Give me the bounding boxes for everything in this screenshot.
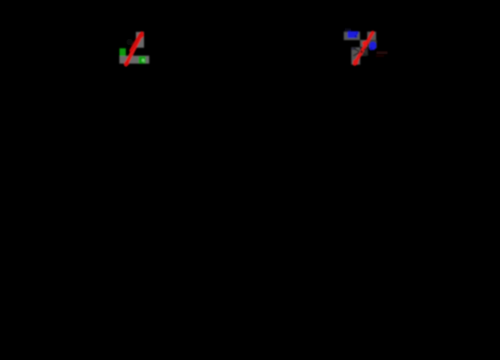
atom label NH upper-right part [356,31,358,34]
left fragment: label mask band behind Cl-Cl (bottom) [119,56,149,64]
atom label Cl1 (green) [120,48,126,56]
right fragment: label mask box behind O (top right) [367,32,376,41]
red bottom tip bulge (left fragment) [124,61,129,65]
bond C=O second line (red, parallel) [131,34,140,50]
faint bond X arm lower-right [364,54,368,56]
atom label O (red blob at bond end) [353,59,358,65]
Cl2 glyph highlight dots [142,59,145,62]
right fragment: label mask column bottom left [351,47,360,64]
right fragment: dark patch right of red bond [361,48,368,56]
faint dark red streak lower [376,55,384,57]
atom label NH lower-right part [355,35,357,38]
atom label Cl2 (green) [139,56,146,63]
faint smudge above NH label [345,28,351,31]
bond C=O (red, right fragment) [355,33,373,65]
right fragment: label mask box middle [360,40,368,47]
faint bond X arm upper-right [364,48,367,50]
dark nick on red bond at crossing [360,50,363,53]
faint residue near left fragment [126,39,133,46]
left fragment: label mask box behind O (top) [136,32,144,48]
red bright blob mid bond [363,41,368,46]
faint navy smudge at column top [352,48,357,50]
blue dot lower-left tail [369,47,372,50]
faint bond X arm lower-left [353,52,359,56]
right fragment: label mask box behind NH [344,32,360,40]
atom label NH (blue) [348,31,358,38]
faint dark red streak right [377,51,388,54]
bond C=O (red, left fragment) [126,33,142,64]
atom label N (blue dot) [369,42,376,50]
right fragment: label mask box behind N [368,40,376,48]
atom label O top bulge (red, left fragment) [139,32,144,38]
faint bond X arm upper-left [354,48,360,51]
